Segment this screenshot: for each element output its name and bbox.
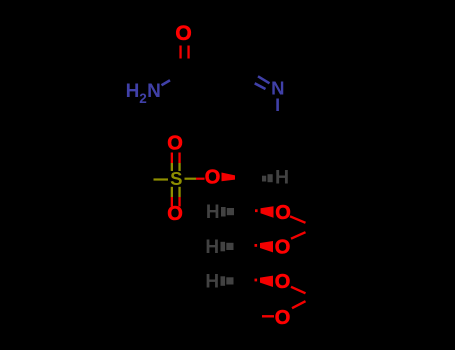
svg-text:H: H (126, 81, 140, 102)
bond C3'-O solid wedge (red, narrow at C3' wide at O) (255, 244, 258, 247)
bond C3'-H hashed wedge (gray half near H) (221, 242, 234, 252)
bond S=O top double bond (red half + olive half) (171, 153, 181, 172)
bond S-CH3 mesyl methyl (olive half) (154, 178, 169, 180)
bond O3'-C(acetonide-1) (red half, up-right) (291, 232, 306, 239)
bond C2'-O solid wedge (red, narrow at C2' wide at O) (255, 209, 258, 212)
svg-text:S: S (170, 168, 182, 189)
bond O-C1' solid wedge (red half, wide at O tapering right) (222, 173, 236, 182)
bond C4'-O solid wedge (red, narrow at C4' wide at O) (255, 279, 258, 282)
svg-text:O: O (275, 271, 291, 293)
bond O5'-C(acetonide-2) (red half, up-right) (292, 301, 306, 308)
bond C2'-H hashed wedge (gray half near H) (221, 207, 234, 217)
svg-text:O: O (167, 133, 183, 155)
bond C4'-H hashed wedge (gray half near H) (221, 276, 234, 286)
svg-text:O: O (167, 203, 183, 225)
bond O4'-C(acetonide-2) (red half, down-right) (291, 287, 306, 294)
svg-text:H: H (206, 202, 220, 223)
bond C5'H2-O horizontal (red half) (262, 315, 274, 317)
svg-text:H: H (275, 167, 289, 189)
atom N of amide H2N group (126, 81, 161, 106)
bond N1-C6 pyridine (blue half) (276, 99, 279, 112)
bond S-O ester (olive half + red half) (185, 178, 197, 180)
svg-text:O: O (275, 202, 291, 224)
bond S=O bottom double bond (olive half + red half) (171, 187, 181, 207)
svg-text:O: O (275, 307, 291, 329)
svg-text:H: H (205, 272, 219, 293)
svg-text:H: H (205, 237, 219, 258)
bond C2=N1 pyridine double bond (blue halves) (255, 76, 270, 89)
svg-text:2: 2 (139, 91, 147, 106)
bond H2N-C(amide) (blue half) (162, 80, 171, 85)
bond C1'-H hashed wedge (gray half near H) (262, 174, 273, 182)
svg-text:O: O (275, 236, 291, 258)
svg-text:N: N (271, 78, 284, 99)
bond O2'-C(acetonide-1) (red half, down-right) (290, 216, 306, 223)
svg-text:O: O (205, 167, 221, 189)
bond C=O amide double bond (red half) (179, 46, 189, 59)
svg-text:N: N (147, 81, 161, 102)
svg-text:O: O (175, 22, 191, 45)
